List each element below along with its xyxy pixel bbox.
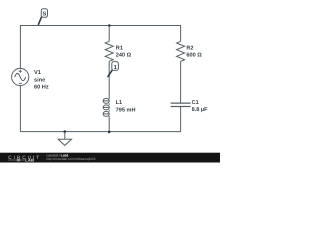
svg-text:600 Ω: 600 Ω xyxy=(186,53,202,59)
resistor R2 xyxy=(177,41,185,61)
svg-text:http://circuitlab.com/c/9bkamq: http://circuitlab.com/c/9bkamq3x22 xyxy=(47,157,96,161)
V1 sine wave xyxy=(15,73,26,80)
footer bar xyxy=(0,153,220,163)
svg-text:S: S xyxy=(42,11,46,18)
wire bottom horizontal xyxy=(20,131,180,133)
svg-text:LAB: LAB xyxy=(25,157,34,162)
node tag 1 xyxy=(108,70,113,77)
svg-text:795 mH: 795 mH xyxy=(116,108,136,114)
wire top horizontal xyxy=(20,25,180,27)
svg-text:sine: sine xyxy=(34,77,45,84)
V1 plus sign xyxy=(19,70,22,73)
voltage source V1 circle xyxy=(12,68,29,85)
junction dot top middle xyxy=(108,24,111,27)
wire right upper segment xyxy=(180,25,182,41)
wire R2 to C1 xyxy=(180,61,182,103)
junction dot bottom middle xyxy=(108,131,111,134)
node tag S xyxy=(38,17,42,25)
capacitor C1 xyxy=(171,103,191,106)
svg-text:60 Hz: 60 Hz xyxy=(34,85,49,91)
svg-text:C1: C1 xyxy=(192,100,199,106)
svg-text:8.8 µF: 8.8 µF xyxy=(192,107,209,113)
wire L1 bottom lead xyxy=(108,116,110,132)
svg-text:V1: V1 xyxy=(34,70,41,76)
resistor R1 xyxy=(105,41,113,61)
wire R1 top lead xyxy=(108,26,110,42)
wire R1 to L1 xyxy=(108,61,110,99)
svg-text:R1: R1 xyxy=(116,45,123,51)
wire left lower segment xyxy=(19,86,21,132)
wire C1 bottom lead xyxy=(180,107,182,133)
svg-text:240 Ω: 240 Ω xyxy=(116,53,132,59)
ground symbol xyxy=(58,132,71,146)
svg-text:R2: R2 xyxy=(186,45,193,51)
inductor L1 xyxy=(103,98,109,116)
footer logo wire+LAB xyxy=(8,159,16,161)
wire left upper segment xyxy=(19,25,21,69)
junction dot ground xyxy=(64,130,67,133)
svg-text:L1: L1 xyxy=(116,100,123,106)
V1 minus sign xyxy=(19,82,22,84)
